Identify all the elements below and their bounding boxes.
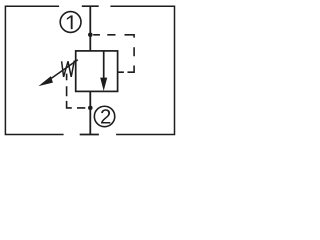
pilot line (dashed) from node A to valve right side — [93, 35, 134, 72]
wire: port 2 outlet line — [89, 91, 91, 135]
port 2 label digit — [101, 109, 110, 123]
adjustment arrowhead — [38, 76, 53, 86]
node B junction dot — [88, 106, 93, 111]
drain line (dashed) from spring chamber to node B — [67, 74, 86, 108]
enclosure boundary (left + top-left + bottom-left segments) — [5, 6, 63, 134]
port 2 terminal bar (bottom boundary crossbar) — [80, 134, 99, 136]
adjustment arrow shaft — [50, 60, 78, 80]
spring (adjustable) — [62, 61, 76, 77]
flow path arrowhead — [100, 78, 107, 91]
port 1 label circle — [60, 12, 81, 33]
node A junction dot — [88, 33, 93, 38]
port 2 label circle — [94, 106, 114, 126]
flow path line (closed position) — [103, 51, 105, 79]
valve body envelope V1 — [76, 51, 118, 92]
port 1 terminal bar (top boundary crossbar) — [82, 5, 99, 7]
wire: port 1 inlet line — [89, 6, 91, 51]
port 1 label digit — [67, 15, 73, 29]
enclosure boundary (right + top-right + bottom-right segments) — [110, 6, 174, 134]
